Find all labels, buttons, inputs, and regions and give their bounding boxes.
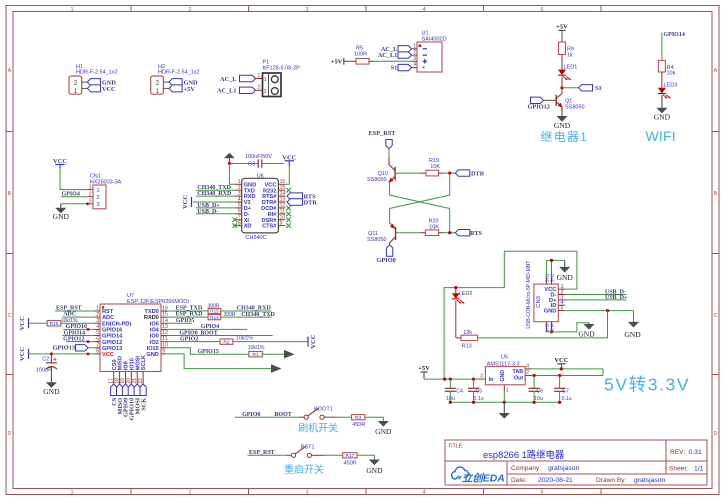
svg-text:DTR: DTR xyxy=(471,171,485,178)
junction node S1 xyxy=(560,86,563,89)
node RTS flag at U6 pin14 xyxy=(287,193,303,199)
svg-text:SCLK: SCLK xyxy=(141,355,147,370)
svg-text:ESP_RST: ESP_RST xyxy=(369,130,397,137)
svg-text:BOOT: BOOT xyxy=(200,330,217,336)
svg-text:9: 9 xyxy=(280,220,283,226)
junction CN3 gnd branch xyxy=(606,309,609,312)
node MOSI flag below U7 xyxy=(134,384,140,396)
svg-text:GPIO4: GPIO4 xyxy=(62,192,80,198)
ground below U5 xyxy=(503,402,505,413)
wire U7 pin11 GPIO2 to R2 xyxy=(167,341,221,343)
wire U7 pin10 IO15 step down xyxy=(167,348,249,354)
svg-text:VCC: VCC xyxy=(19,347,26,361)
transistor Q1 SS8050 xyxy=(555,95,557,106)
svg-text:4: 4 xyxy=(526,363,529,369)
junction SH2 gnd xyxy=(550,259,553,262)
wire Q10 base to R19 xyxy=(396,172,421,174)
no-connect U6 pin7 xyxy=(232,217,237,222)
svg-text:IO4: IO4 xyxy=(150,327,160,333)
wire LED2 cathode to R13 xyxy=(455,301,457,338)
svg-text:U5: U5 xyxy=(501,355,508,361)
svg-text:2: 2 xyxy=(97,195,100,201)
svg-text:0.1u: 0.1u xyxy=(474,396,484,402)
H1 GND flag xyxy=(87,79,100,86)
svg-text:USB_D+: USB_D+ xyxy=(605,295,628,301)
wire R19 to DTR junction xyxy=(439,172,445,174)
svg-text:ESP_TXD: ESP_TXD xyxy=(176,306,203,312)
U7 pin 2 ADC xyxy=(95,316,101,318)
resistor R14 300R xyxy=(208,315,221,320)
svg-text:LED3: LED3 xyxy=(664,83,678,89)
svg-text:XD: XD xyxy=(244,224,252,230)
svg-text:GND: GND xyxy=(544,309,557,315)
svg-text:GND: GND xyxy=(366,466,383,475)
svg-text:GND: GND xyxy=(578,330,595,339)
svg-text:SS8050: SS8050 xyxy=(367,177,387,183)
U6 pin 11 RI# xyxy=(278,213,285,215)
resistor R9 1k xyxy=(559,42,566,55)
U1 pin 2 stub xyxy=(412,54,418,56)
capacitor C4 10u xyxy=(449,379,451,388)
CN3 pin 4 ID xyxy=(558,304,565,306)
wire C3 to VCC xyxy=(262,163,284,165)
svg-text:1: 1 xyxy=(70,490,73,496)
U6 pin 3 RXD xyxy=(235,195,242,197)
svg-text:GPIO2: GPIO2 xyxy=(180,336,198,342)
svg-text:RXD0: RXD0 xyxy=(144,315,159,321)
svg-text:4: 4 xyxy=(422,490,425,496)
svg-text:3: 3 xyxy=(305,490,308,496)
U7 pin 15 RXD0 xyxy=(161,316,167,318)
H2 GND flag xyxy=(169,79,182,86)
U7 pin 11 IO2 xyxy=(161,341,167,343)
node GPIO12 flag xyxy=(531,97,544,103)
svg-text:9: 9 xyxy=(162,348,165,354)
ground right of SH4 xyxy=(588,323,590,324)
CN1 pin 1 stub xyxy=(88,189,94,191)
wire Q11 base to R20 xyxy=(396,232,420,234)
svg-text:4: 4 xyxy=(96,324,99,330)
svg-text:4: 4 xyxy=(422,7,425,13)
svg-text:GPIO13: GPIO13 xyxy=(102,346,122,352)
wire CN3 D- USB_D- xyxy=(565,294,626,296)
wire CH340_RXD to U6 pin3 xyxy=(196,195,235,197)
svg-text:1: 1 xyxy=(96,306,99,312)
junction LED2 anode xyxy=(454,286,457,289)
svg-text:GND: GND xyxy=(146,352,158,358)
svg-text:R1: R1 xyxy=(252,352,258,358)
svg-text:WIFI: WIFI xyxy=(646,128,676,144)
wire ground rail below U5 xyxy=(450,401,559,403)
svg-text:2: 2 xyxy=(96,312,99,318)
svg-text:C3: C3 xyxy=(248,161,255,167)
svg-text:RST1: RST1 xyxy=(301,444,315,450)
P1 pin 2 stub xyxy=(256,89,263,91)
U7 pin 19 IO9 xyxy=(124,372,126,385)
U5 pin 1 GND stub xyxy=(503,385,505,392)
node AC_L flag at U1 xyxy=(398,46,412,52)
node AC_L1 flag at U1 xyxy=(398,52,412,58)
U7 pin 5 GPIO14 xyxy=(95,335,101,337)
svg-text:Out: Out xyxy=(514,376,523,382)
svg-text:GND: GND xyxy=(654,113,671,122)
U6 pin 12 DCD# xyxy=(278,207,285,209)
wire U7 pin13 GPIO4 xyxy=(167,328,248,330)
svg-text:esp8266 1路继电器: esp8266 1路继电器 xyxy=(483,449,565,460)
U7 pin 16 TXD0 xyxy=(161,310,167,312)
junction SH4 xyxy=(550,330,553,333)
svg-text:GPIO14: GPIO14 xyxy=(664,32,685,38)
resistor R3 450R xyxy=(352,415,365,420)
transistor Q11 SS8050 xyxy=(390,223,396,229)
svg-text:2: 2 xyxy=(89,191,92,197)
node GPIO9 flag below U7 xyxy=(122,384,128,396)
node S1 flag at U1 xyxy=(398,64,412,70)
svg-text:1: 1 xyxy=(264,77,267,83)
U7 pin 20 IO10 xyxy=(130,372,132,385)
svg-text:5: 5 xyxy=(96,330,99,336)
svg-text:1: 1 xyxy=(89,184,92,190)
junction input rail xyxy=(443,378,446,381)
wire switch RST1 to R17 xyxy=(311,454,325,456)
svg-text:3: 3 xyxy=(96,318,99,324)
svg-text:3: 3 xyxy=(413,56,416,62)
svg-text:R3: R3 xyxy=(355,415,361,421)
svg-text:B: B xyxy=(8,191,12,197)
U6 pin 14 RTS# xyxy=(278,195,285,197)
svg-text:GPIO0: GPIO0 xyxy=(179,330,197,336)
ground below C2 xyxy=(50,381,52,383)
node SCK flag below U7 xyxy=(140,384,146,396)
svg-text:10k: 10k xyxy=(667,71,676,77)
wire CN1 pin3 to ground xyxy=(61,203,88,205)
wire +5V to R9 xyxy=(561,30,563,42)
U6 pin 2 TXD xyxy=(235,189,242,191)
svg-text:GPIO12: GPIO12 xyxy=(63,336,84,342)
node AC_L flag at P1 xyxy=(240,75,256,81)
wire gnd junction to C3 xyxy=(229,163,258,165)
U6 pin 16 VCC xyxy=(278,183,285,185)
border column ticks top xyxy=(130,6,132,12)
CN1 pin 2 stub xyxy=(88,196,94,198)
svg-text:5: 5 xyxy=(540,7,543,13)
wire U7 pin12 GPIO0 BOOT xyxy=(167,335,273,337)
node DTR flag xyxy=(455,170,470,176)
svg-text:2: 2 xyxy=(188,7,191,13)
svg-text:GPIO5: GPIO5 xyxy=(176,318,194,324)
wire GPIO12 to U7 pin6 xyxy=(66,341,94,343)
wire R5 to U1 pin3 xyxy=(369,60,374,62)
svg-text:1k: 1k xyxy=(567,52,573,58)
U7 pin 21 MOSI xyxy=(136,372,138,385)
svg-text:22: 22 xyxy=(138,378,144,384)
svg-text:IO0: IO0 xyxy=(150,334,159,340)
P1 pin 1 stub xyxy=(256,78,263,80)
wire R15 to CH340_RXD xyxy=(221,310,272,312)
title block frame xyxy=(445,440,707,485)
svg-text:R15: R15 xyxy=(210,309,219,315)
svg-text:100uF: 100uF xyxy=(36,368,52,374)
wire CN3 GND pin5 xyxy=(565,310,633,312)
no-connect U6 pin8 xyxy=(232,223,237,228)
svg-text:B: B xyxy=(714,191,718,197)
svg-text:VCC: VCC xyxy=(310,334,317,348)
connector CN3 USB-CON-Micro-5P-MID-MNT xyxy=(534,284,558,322)
junction DTR xyxy=(448,172,451,175)
svg-text:C: C xyxy=(714,313,718,319)
svg-text:0.1u: 0.1u xyxy=(562,396,572,402)
U6 pin 8 XD xyxy=(235,225,242,227)
wire VCC to U6 pin4 xyxy=(193,201,235,203)
svg-text:GPIO15: GPIO15 xyxy=(198,349,219,355)
svg-text:R16: R16 xyxy=(50,321,59,327)
svg-text:S1: S1 xyxy=(595,85,602,92)
wire R14 to CH340_TXD xyxy=(221,316,272,318)
svg-text:1/1: 1/1 xyxy=(694,465,704,472)
svg-text:ESP_RXD: ESP_RXD xyxy=(176,312,204,318)
svg-text:10u: 10u xyxy=(534,396,543,402)
svg-text:+5V: +5V xyxy=(556,24,568,31)
svg-text:Drawn By:: Drawn By: xyxy=(596,477,627,484)
svg-text:REV:: REV: xyxy=(670,449,685,456)
svg-text:Date:: Date: xyxy=(511,477,527,484)
wire U5 out rail xyxy=(531,368,603,370)
svg-text:LED2: LED2 xyxy=(459,291,473,297)
svg-text:AC_L1: AC_L1 xyxy=(217,88,237,95)
svg-text:立创EDA: 立创EDA xyxy=(462,471,505,484)
svg-text:CTS#: CTS# xyxy=(262,224,277,230)
U7 pin 6 GPIO12 xyxy=(95,341,101,343)
svg-text:4: 4 xyxy=(413,62,416,68)
svg-text:IO15: IO15 xyxy=(147,346,159,352)
svg-text:D: D xyxy=(714,431,718,437)
node CS flag below U7 xyxy=(111,384,117,396)
svg-text:0.31: 0.31 xyxy=(689,449,702,456)
U6 pin 9 CTS# xyxy=(278,225,285,227)
svg-text:3: 3 xyxy=(89,199,92,205)
svg-text:KF128-5.08-2P: KF128-5.08-2P xyxy=(263,66,301,72)
node AC_L1 flag at P1 xyxy=(240,87,256,93)
U7 pin 8 VCC xyxy=(95,353,101,355)
U7 pin 10 IO15 xyxy=(161,347,167,349)
svg-text:+5V: +5V xyxy=(184,86,196,93)
border row ticks right xyxy=(712,131,719,133)
H1 pin 2 stub xyxy=(82,81,88,83)
svg-text:C: C xyxy=(8,313,12,319)
transistor Q10 SS8050 xyxy=(388,158,390,165)
junction RTS xyxy=(448,231,451,234)
svg-text:1: 1 xyxy=(258,73,261,79)
wire ESP_RST to U7 pin1 xyxy=(55,310,94,312)
wire VCC to CN1 pin1 xyxy=(59,165,61,169)
U7 pin 3 EN(CH-PD) xyxy=(95,322,101,324)
wire VCC to U7 pin8 xyxy=(29,353,95,355)
no-connect U6 pin12 xyxy=(286,206,291,211)
svg-text:DTR: DTR xyxy=(304,200,318,207)
svg-text:RTS: RTS xyxy=(470,230,483,237)
H2 pin 1 stub xyxy=(163,87,169,89)
svg-text:8: 8 xyxy=(96,349,99,355)
wire USB_D- to U6 pin6 xyxy=(196,213,235,215)
svg-text:C6: C6 xyxy=(536,389,543,395)
U7 pin 14 IO5 xyxy=(161,322,167,324)
svg-text:HDR-F-2.54_1x2: HDR-F-2.54_1x2 xyxy=(76,69,118,75)
U6 pin 10 DSR# xyxy=(278,219,285,221)
R5 left stub xyxy=(351,60,357,62)
svg-text:TAB: TAB xyxy=(513,369,524,375)
svg-text:SH2: SH2 xyxy=(550,273,556,283)
wire R2 to VCC xyxy=(233,341,308,343)
svg-text:GPIO14: GPIO14 xyxy=(64,330,85,336)
border column ticks bottom xyxy=(130,489,132,495)
wire ADC to U7 pin2 xyxy=(62,316,94,318)
node GPIO10 flag below U7 xyxy=(128,384,134,396)
ground above CN3 xyxy=(564,260,566,267)
ground below R17 xyxy=(373,459,375,461)
svg-text:gratsjason: gratsjason xyxy=(548,465,580,472)
svg-text:GPIO13: GPIO13 xyxy=(53,345,75,352)
svg-text:R17: R17 xyxy=(345,453,354,459)
svg-text:5: 5 xyxy=(561,305,564,311)
svg-text:GPIO12: GPIO12 xyxy=(528,104,550,111)
svg-text:R2: R2 xyxy=(223,339,229,345)
svg-text:A: A xyxy=(8,68,12,74)
svg-text:Sheet:: Sheet: xyxy=(669,465,688,472)
U1 pin 1 stub xyxy=(412,48,418,50)
node MISO flag below U7 xyxy=(117,384,123,396)
node GPIO0 flag below Q11 xyxy=(386,245,392,256)
svg-text:3: 3 xyxy=(305,7,308,13)
svg-text:GPIO16: GPIO16 xyxy=(66,324,87,330)
svg-text:GND: GND xyxy=(500,370,506,382)
svg-text:+5V: +5V xyxy=(418,365,430,372)
svg-text:450R: 450R xyxy=(352,422,365,428)
wire cross coupling diagonal 2 xyxy=(390,195,450,208)
power VCC at R16 xyxy=(28,318,30,328)
H1 pin 1 stub xyxy=(82,87,88,89)
wire U7 pin15 ESP_RXD to R14 xyxy=(167,316,209,318)
svg-text:GND: GND xyxy=(43,387,60,396)
svg-text:VCC: VCC xyxy=(554,357,568,364)
wire Q11 collector to GPIO0 flag xyxy=(389,243,391,245)
svg-text:2: 2 xyxy=(258,85,261,91)
svg-text:450R: 450R xyxy=(344,460,357,466)
svg-text:1: 1 xyxy=(97,188,100,194)
svg-text:ADC: ADC xyxy=(102,315,114,321)
svg-text:GND: GND xyxy=(624,330,641,339)
node DTR flag at U6 pin13 xyxy=(287,199,303,205)
no-connect U6 pin15 xyxy=(286,188,291,193)
svg-text:1: 1 xyxy=(413,43,416,49)
EasyEDA logo xyxy=(452,467,469,479)
wire Q10 emitter down xyxy=(388,182,390,195)
svg-text:SH3: SH3 xyxy=(544,323,550,333)
svg-text:3: 3 xyxy=(480,373,483,379)
svg-text:IO5: IO5 xyxy=(150,321,159,327)
power VCC at U7 pin8 xyxy=(28,349,30,359)
wire LED3 to ground xyxy=(661,95,663,108)
CN3 pin 1 VCC xyxy=(558,288,565,290)
U6 pin 7 XI xyxy=(235,219,242,221)
svg-text:C5: C5 xyxy=(476,389,483,395)
capacitor C7 0.1u xyxy=(559,376,561,389)
svg-text:SS8050: SS8050 xyxy=(367,237,387,243)
wire DTR junction down xyxy=(449,173,451,195)
CN3 pin SH3 stub xyxy=(545,322,547,332)
svg-text:2: 2 xyxy=(188,490,191,496)
svg-text:VCC: VCC xyxy=(102,352,114,358)
svg-text:TITLE:: TITLE: xyxy=(448,444,464,450)
svg-text:CN3: CN3 xyxy=(536,296,542,308)
CN3 pin SH4 stub xyxy=(551,322,553,332)
wire SH1 SH2 to local ground xyxy=(545,260,547,277)
svg-text:10k/1%: 10k/1% xyxy=(248,345,265,351)
svg-text:gratsjason: gratsjason xyxy=(634,477,666,484)
wire VCC down to U6 pin16 xyxy=(285,166,289,184)
wire cross to RTS junction xyxy=(449,209,451,233)
wire junction to S1 flag xyxy=(562,87,579,89)
wire SH3 SH4 to ground xyxy=(546,323,589,332)
U7 pin 4 GPIO16 xyxy=(95,328,101,330)
svg-text:C7: C7 xyxy=(562,389,569,395)
CN3 pin 3 D+ xyxy=(558,299,565,301)
junction at C3 left xyxy=(228,162,231,165)
wire GPIO14 to U7 pin5 xyxy=(62,335,94,337)
svg-text:10K: 10K xyxy=(430,164,440,170)
svg-text:CH340_TXD: CH340_TXD xyxy=(241,312,275,318)
svg-text:2: 2 xyxy=(264,89,267,95)
CN3 pin 2 D- xyxy=(558,294,565,296)
svg-text:Company:: Company: xyxy=(511,465,541,472)
wire VCC to R16 xyxy=(29,322,48,324)
svg-text:AC_L1: AC_L1 xyxy=(378,52,398,59)
ground at CN1 xyxy=(60,204,62,208)
wire +5V input rail xyxy=(424,378,485,380)
CN3 pin SH1 stub xyxy=(545,277,547,284)
resistor R17 450R xyxy=(343,453,357,458)
wire R17 to ground xyxy=(357,455,374,459)
U5 pin 4 TAB stub xyxy=(525,368,531,370)
wire R1 to ground arrow xyxy=(262,353,284,355)
wire GPIO14 to R4 xyxy=(661,33,663,61)
U6 pin 6 D- xyxy=(235,213,242,215)
wire U7 pin14 GPIO5 xyxy=(167,322,193,324)
wire GPIO0 to switch BOOT1 xyxy=(235,416,299,418)
ground right of U7 pin9 wire xyxy=(271,364,282,373)
ground below R3 xyxy=(382,420,384,422)
svg-text:S1: S1 xyxy=(391,65,398,72)
capacitor C5 0.1u xyxy=(473,379,475,388)
power VCC right of R2 xyxy=(307,337,309,347)
svg-text:继电器1: 继电器1 xyxy=(541,130,588,144)
no-connect U6 pin10 xyxy=(286,217,291,222)
svg-text:GND: GND xyxy=(53,212,70,221)
svg-text:GND: GND xyxy=(557,273,574,282)
wire ESP_RST to switch RST1 xyxy=(248,454,287,456)
svg-text:A: A xyxy=(714,68,718,74)
U6 pin 5 D+ xyxy=(235,207,242,209)
wire U6 pin1 to ground junction xyxy=(229,164,234,185)
svg-text:D: D xyxy=(8,431,12,437)
svg-text:100R: 100R xyxy=(354,51,367,57)
svg-text:VCC: VCC xyxy=(19,316,26,330)
power VCC at U6 pin4 xyxy=(191,197,193,207)
svg-text:GPIO14: GPIO14 xyxy=(102,334,123,340)
svg-text:SCK: SCK xyxy=(140,398,147,411)
node RTS flag xyxy=(455,230,470,236)
resistor R4 10k xyxy=(658,61,665,73)
svg-text:C4: C4 xyxy=(456,389,463,395)
